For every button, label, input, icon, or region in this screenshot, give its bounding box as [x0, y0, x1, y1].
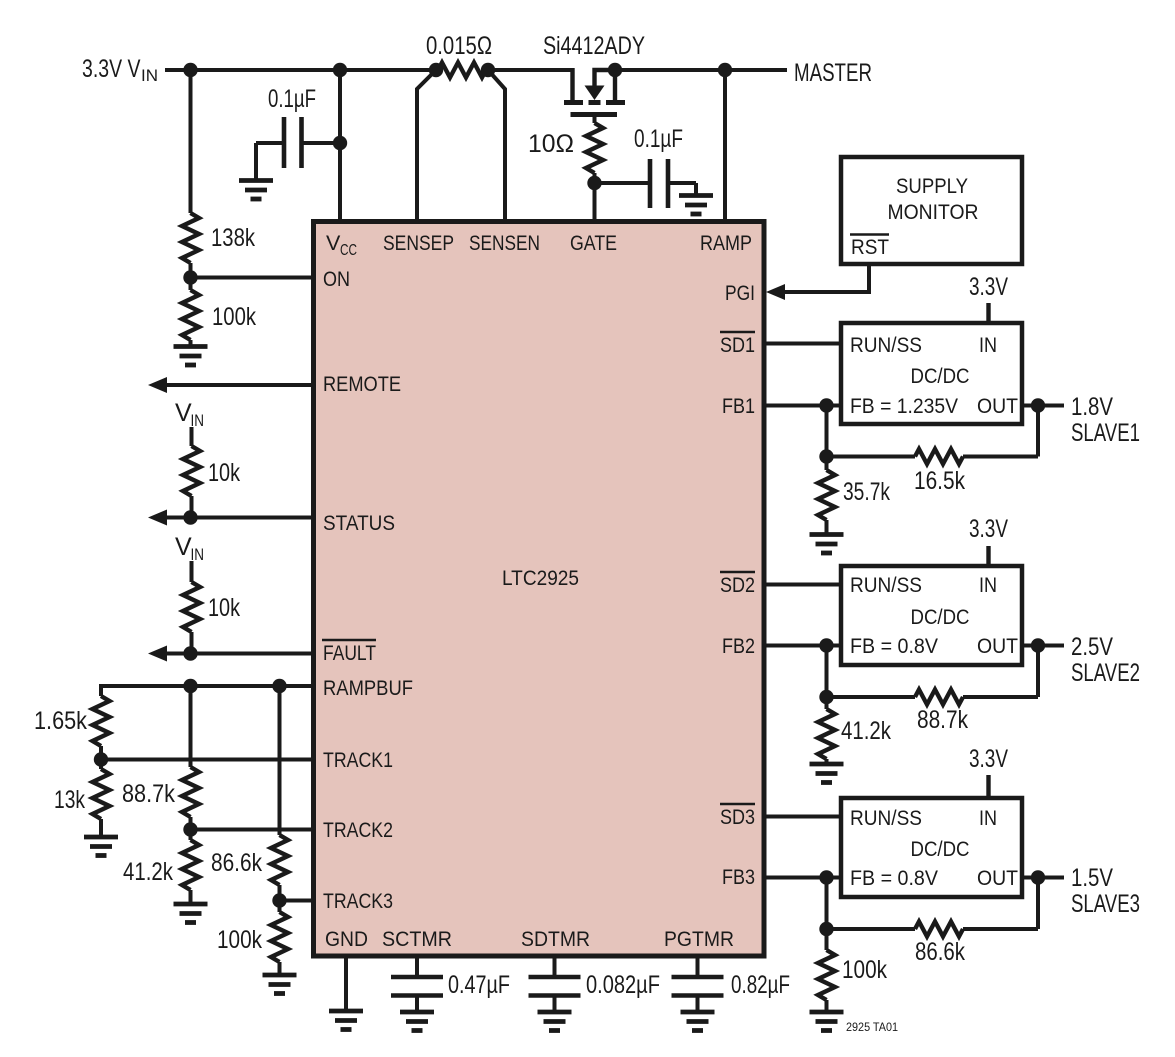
resistor 100k (slave3) [818, 929, 887, 1012]
svg-text:3.3V: 3.3V [969, 745, 1008, 773]
wire SD2 [766, 583, 841, 587]
svg-text:RUN/SS: RUN/SS [850, 573, 922, 597]
svg-text:0.1µF: 0.1µF [268, 85, 316, 113]
svg-text:PGI: PGI [725, 281, 755, 305]
resistor 13k [54, 760, 110, 838]
ground (41.2k) [174, 904, 208, 923]
svg-text:10Ω: 10Ω [528, 130, 574, 158]
svg-text:3.3V: 3.3V [969, 273, 1008, 301]
wire FB2 down [825, 646, 829, 698]
junction at VIN/138k [183, 63, 197, 77]
wire SENSEP [417, 70, 436, 224]
ground (SCTMR cap) [400, 1012, 434, 1031]
IC LTC2925 body [314, 222, 765, 957]
junction OUT2 [1031, 638, 1045, 652]
svg-text:TRACK3: TRACK3 [323, 889, 393, 913]
svg-text:10k: 10k [208, 459, 240, 487]
svg-text:STATUS: STATUS [323, 511, 395, 535]
resistor 16.5k [827, 449, 1039, 495]
svg-text:FB2: FB2 [722, 634, 755, 658]
ground (100k slave3) [810, 1012, 844, 1031]
svg-text:REMOTE: REMOTE [323, 372, 401, 396]
ground (35.7k) [810, 535, 844, 554]
wire REMOTE arrow [148, 377, 316, 393]
svg-text:TRACK1: TRACK1 [323, 748, 393, 772]
junction FAULT [183, 646, 197, 660]
junction FB2 [819, 638, 833, 652]
ground (VCC bypass cap) [239, 181, 273, 200]
svg-text:0.82µF: 0.82µF [731, 971, 790, 999]
wire TRACK2 [191, 828, 317, 832]
supply monitor box U2 [841, 157, 1022, 264]
resistor 41.2k (slave2) [818, 697, 891, 764]
svg-text:OUT: OUT [977, 866, 1018, 890]
svg-text:RST: RST [851, 235, 889, 259]
junction OUT3 [1031, 870, 1045, 884]
wire STATUS arrow [148, 510, 316, 526]
svg-text:86.6k: 86.6k [211, 849, 262, 877]
svg-text:OUT: OUT [977, 634, 1018, 658]
svg-text:DC/DC: DC/DC [911, 605, 970, 629]
ground (SDTMR cap) [538, 1012, 572, 1031]
svg-text:0.47µF: 0.47µF [448, 971, 510, 999]
svg-text:88.7k: 88.7k [917, 706, 968, 734]
transistor Si4412ADY MOSFET [543, 32, 645, 115]
svg-text:FB1: FB1 [722, 394, 755, 418]
junction RAMPBUF/86.6k [272, 679, 286, 693]
svg-text:1.65k: 1.65k [34, 707, 87, 735]
resistor 100k (track3) [217, 901, 288, 976]
resistor 10k (STATUS pullup) [183, 427, 240, 518]
wire SD1 [766, 342, 841, 346]
svg-text:SD3: SD3 [720, 805, 755, 829]
dc/dc converter box 1 [841, 323, 1022, 424]
svg-text:100k: 100k [212, 303, 256, 331]
wire SENSEN [488, 70, 505, 224]
svg-text:1.5V: 1.5V [1071, 864, 1113, 892]
svg-text:FB = 1.235V: FB = 1.235V [850, 394, 959, 418]
wire FB3 [766, 876, 841, 880]
capacitor 0.47uF (SCTMR) [391, 958, 510, 1012]
svg-text:1.8V: 1.8V [1071, 393, 1113, 421]
svg-text:3.3V V: 3.3V V [82, 55, 141, 83]
resistor 35.7k [818, 457, 890, 535]
svg-text:TRACK2: TRACK2 [323, 818, 393, 842]
svg-text:SCTMR: SCTMR [382, 927, 452, 951]
svg-text:Si4412ADY: Si4412ADY [543, 32, 645, 60]
ground (13k) [84, 837, 118, 856]
ground (41.2k slave2) [810, 764, 844, 783]
svg-text:86.6k: 86.6k [915, 938, 965, 966]
ground (100k track3) [263, 975, 297, 994]
junction STATUS [183, 510, 197, 524]
wire ON pin [191, 276, 317, 280]
dc/dc converter box 2 [841, 566, 1022, 665]
wire OUT2 [1022, 644, 1064, 648]
junction TRACK3 [272, 893, 286, 907]
svg-text:SLAVE3: SLAVE3 [1071, 890, 1140, 918]
wire TRACK3 [280, 899, 317, 903]
resistor 1.65k [34, 684, 110, 760]
svg-text:OUT: OUT [977, 394, 1018, 418]
wire top rail mid [487, 68, 575, 72]
capacitor 0.1uF (VCC bypass) [256, 85, 340, 181]
svg-text:0.015Ω: 0.015Ω [426, 32, 492, 60]
svg-text:100k: 100k [842, 956, 887, 984]
resistor 86.6k (slave3) [827, 922, 1039, 967]
wire top rail right [613, 68, 787, 72]
junction at VCC [333, 63, 347, 77]
IC left pin labels [322, 267, 413, 913]
svg-text:SDTMR: SDTMR [521, 927, 590, 951]
junction MOSFET drain [608, 63, 622, 77]
junction gate node [587, 176, 601, 190]
svg-text:FB = 0.8V: FB = 0.8V [850, 866, 939, 890]
svg-text:RUN/SS: RUN/SS [850, 333, 922, 357]
svg-text:0.082µF: 0.082µF [586, 971, 660, 999]
wire RST to PGI [783, 264, 869, 292]
wire FB1 down [825, 406, 829, 457]
junction divider2 [819, 690, 833, 704]
svg-text:PGTMR: PGTMR [664, 927, 734, 951]
IC bottom pin labels [325, 927, 734, 951]
ground (GND pin) [329, 1011, 363, 1030]
capacitor 0.082uF (SDTMR) [529, 958, 661, 1012]
dc/dc converter box 3 [841, 798, 1022, 897]
svg-text:SUPPLY: SUPPLY [896, 174, 968, 198]
wire SD3 [766, 815, 841, 819]
svg-text:CC: CC [340, 242, 357, 259]
svg-text:IN: IN [979, 573, 997, 597]
svg-text:FB3: FB3 [722, 865, 755, 889]
svg-text:DC/DC: DC/DC [911, 837, 970, 861]
svg-text:0.1µF: 0.1µF [634, 125, 683, 153]
svg-text:35.7k: 35.7k [843, 478, 890, 506]
svg-text:ON: ON [323, 267, 350, 291]
IC top pin labels [326, 231, 752, 259]
svg-text:SLAVE2: SLAVE2 [1071, 659, 1140, 687]
svg-text:MONITOR: MONITOR [888, 200, 979, 224]
resistor 10k (FAULT pullup) [183, 561, 240, 654]
svg-text:IN: IN [979, 806, 997, 830]
svg-text:V: V [175, 399, 192, 427]
IC right pin labels [720, 281, 755, 889]
capacitor 0.82uF (PGTMR) [672, 958, 791, 1012]
svg-text:3.3V: 3.3V [969, 515, 1008, 543]
junction FB1 [819, 398, 833, 412]
svg-text:SD2: SD2 [720, 573, 755, 597]
resistor 88.7k (slave2) [827, 690, 1039, 735]
resistor 138k [182, 70, 255, 278]
resistor 100k (ON divider) [182, 278, 256, 347]
wire FAULT arrow [148, 646, 316, 662]
svg-text:SD1: SD1 [720, 333, 755, 357]
svg-text:IN: IN [141, 67, 158, 85]
svg-text:10k: 10k [208, 594, 240, 622]
svg-text:41.2k: 41.2k [123, 858, 173, 886]
svg-text:SLAVE1: SLAVE1 [1071, 419, 1140, 447]
svg-text:GATE: GATE [570, 231, 617, 255]
resistor 41.2k (track2 divider) [123, 830, 199, 905]
svg-text:RAMP: RAMP [700, 231, 752, 255]
svg-text:16.5k: 16.5k [914, 467, 965, 495]
junction divider3 [819, 922, 833, 936]
svg-text:88.7k: 88.7k [122, 780, 175, 808]
ground (PGTMR cap) [681, 1012, 715, 1031]
ground (ON divider) [174, 347, 208, 366]
junction divider1 [819, 449, 833, 463]
svg-text:41.2k: 41.2k [841, 717, 891, 745]
wire FB3 down [825, 878, 829, 930]
wire OUT1 [1022, 404, 1064, 408]
svg-text:LTC2925: LTC2925 [502, 566, 579, 590]
svg-text:RUN/SS: RUN/SS [850, 806, 922, 830]
capacitor 0.1uF (gate) [634, 125, 696, 208]
junction TRACK2 [183, 822, 197, 836]
ground (gate cap) [679, 196, 713, 215]
wire RAMPBUF [101, 684, 316, 688]
junction RAMP [718, 63, 732, 77]
svg-text:MASTER: MASTER [794, 59, 872, 87]
svg-text:RAMPBUF: RAMPBUF [323, 676, 413, 700]
svg-text:GND: GND [325, 927, 368, 951]
resistor 0.015 ohm sense [426, 32, 495, 78]
wire RAMP vertical [723, 70, 727, 224]
junction ON node [183, 270, 197, 284]
svg-text:2.5V: 2.5V [1071, 633, 1113, 661]
resistor 88.7k (track1 divider) [122, 686, 199, 830]
svg-text:V: V [175, 533, 192, 561]
resistor 10 ohm gate [528, 115, 603, 225]
svg-text:SENSEP: SENSEP [383, 231, 454, 255]
junction FB3 [819, 870, 833, 884]
resistor 86.6k (track3 divider) [211, 686, 288, 901]
wire OUT3 [1022, 876, 1064, 880]
svg-text:2925 TA01: 2925 TA01 [846, 1022, 898, 1034]
junction TRACK1 [94, 752, 108, 766]
junction RAMPBUF/88.7k [183, 679, 197, 693]
svg-text:DC/DC: DC/DC [911, 364, 970, 388]
svg-text:138k: 138k [211, 224, 255, 252]
svg-text:13k: 13k [54, 786, 85, 814]
svg-text:FAULT: FAULT [323, 641, 376, 665]
svg-text:V: V [326, 231, 341, 255]
svg-text:100k: 100k [217, 926, 262, 954]
junction OUT1 [1031, 398, 1045, 412]
wire gate to cap [595, 181, 651, 185]
wire TRACK1 [101, 758, 316, 762]
svg-text:SENSEN: SENSEN [469, 231, 540, 255]
wire top rail left [165, 68, 437, 72]
svg-text:IN: IN [979, 333, 997, 357]
wire VCC vertical [338, 70, 342, 224]
junction at VCC cap [333, 136, 347, 150]
svg-text:FB = 0.8V: FB = 0.8V [850, 634, 939, 658]
wire FB1 [766, 404, 841, 408]
wire FB2 [766, 644, 841, 648]
wire GND pin [344, 958, 348, 1011]
